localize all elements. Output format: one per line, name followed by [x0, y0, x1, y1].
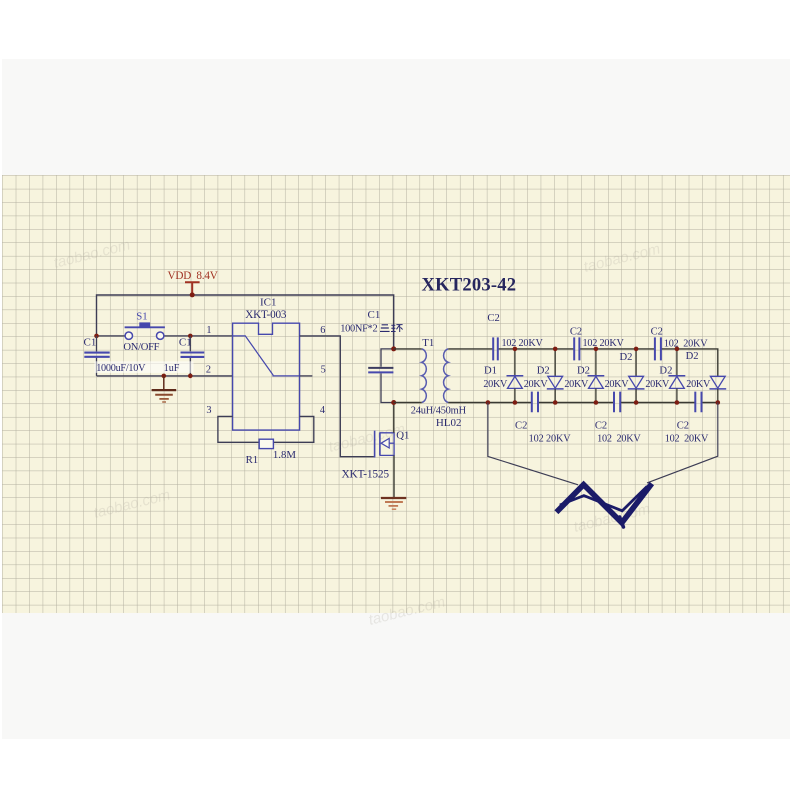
output arrow zigzag — [556, 484, 651, 523]
svg-text:Q1: Q1 — [396, 430, 409, 442]
svg-text:ON/OFF: ON/OFF — [123, 342, 159, 353]
wire pin5 stub — [300, 375, 313, 377]
transformer T1 primary winding — [422, 349, 427, 403]
svg-text:HL02: HL02 — [436, 417, 462, 429]
capacitor C2 bottom #3 — [695, 392, 701, 413]
wire pin1 net right segment — [164, 335, 233, 337]
capacitor C1 1uF (leads and plates) — [189, 336, 191, 376]
svg-text:24uH/450mH: 24uH/450mH — [411, 406, 467, 417]
wire ground net bottom — [97, 375, 233, 377]
svg-text:R1: R1 — [246, 454, 259, 466]
svg-text:20KV: 20KV — [483, 379, 508, 390]
svg-text:C1: C1 — [84, 337, 97, 349]
svg-text:C1: C1 — [179, 337, 192, 349]
svg-text:D1: D1 — [484, 365, 497, 376]
node 1uF bottom junction — [188, 374, 193, 379]
svg-text:T1: T1 — [422, 337, 434, 349]
svg-text:1uF: 1uF — [164, 363, 180, 374]
svg-text:6: 6 — [320, 325, 325, 336]
wire Q1 source to ground — [393, 455, 395, 497]
capacitor C1 1000uF (leads and plates) — [96, 336, 98, 376]
svg-text:C1: C1 — [368, 309, 381, 321]
node HV bottom junction 7 — [716, 400, 721, 405]
resistor R1 — [259, 439, 273, 448]
node HV bottom junction 1 — [486, 400, 491, 405]
svg-text:XKT-1525: XKT-1525 — [342, 468, 390, 480]
svg-text:100NF*2: 100NF*2 — [340, 324, 377, 335]
svg-text:C2: C2 — [677, 420, 689, 431]
svg-text:S1: S1 — [136, 311, 147, 323]
svg-text:20KV: 20KV — [645, 379, 670, 390]
svg-text:102 20KV: 102 20KV — [583, 338, 625, 349]
svg-text:3: 3 — [206, 405, 211, 416]
svg-text:VDD 8.4V: VDD 8.4V — [168, 270, 218, 282]
node ground tap junction — [162, 374, 167, 379]
node HV top junction 2 — [553, 347, 558, 352]
node HV bottom junction 4 — [594, 400, 599, 405]
svg-text:D2: D2 — [659, 365, 672, 376]
capacitor C2 bottom #2 — [614, 392, 620, 413]
capacitor C1 100NF branch — [381, 349, 394, 403]
svg-text:5: 5 — [321, 364, 326, 375]
wire Q1 drain — [393, 403, 395, 433]
node VDD junction — [190, 292, 195, 297]
svg-text:20KV: 20KV — [564, 379, 589, 390]
node HV bottom junction 3 — [553, 400, 558, 405]
svg-text:2: 2 — [206, 365, 211, 376]
wire HV output left lead — [488, 403, 578, 485]
svg-text:C2: C2 — [515, 420, 527, 431]
wire T1 secondary top lead — [448, 348, 493, 350]
wire T1 primary bottom lead — [394, 402, 422, 404]
power symbol VDD bar — [185, 282, 200, 294]
svg-text:102 20KV: 102 20KV — [529, 433, 572, 444]
svg-text:102 20KV: 102 20KV — [664, 338, 708, 349]
diode D1 #1 — [514, 349, 516, 376]
label three-ring glyphs — [380, 325, 390, 332]
svg-text:1000uF/10V: 1000uF/10V — [96, 363, 146, 374]
wire HV output right lead — [647, 403, 718, 483]
node HV top junction 5 — [675, 347, 680, 352]
diode D2 #5 — [676, 349, 678, 376]
svg-text:D2: D2 — [537, 366, 550, 377]
svg-text:C2: C2 — [651, 326, 663, 337]
svg-text:C2: C2 — [595, 420, 607, 431]
switch S1 — [125, 326, 165, 328]
transistor Q1 MOSFET XKT-1525 — [374, 431, 376, 458]
node T1 primary bottom junction — [391, 400, 396, 405]
svg-text:1.8M: 1.8M — [273, 449, 296, 461]
svg-text:C2: C2 — [487, 313, 499, 324]
node HV top junction 3 — [594, 347, 599, 352]
transformer T1 secondary winding — [444, 349, 449, 403]
svg-text:XKT203-42: XKT203-42 — [422, 275, 517, 296]
svg-text:D2: D2 — [686, 351, 699, 362]
node 1uF top junction — [188, 334, 193, 339]
wire pin1 net left segment — [97, 335, 126, 337]
svg-text:XKT-003: XKT-003 — [245, 309, 287, 321]
diode D2 #6 — [710, 376, 725, 388]
wire VDD power rail — [97, 295, 394, 349]
wire ground stem GND1 — [163, 376, 165, 390]
node HV top junction 4 — [634, 347, 639, 352]
diode D2 #4 — [635, 349, 637, 376]
diode D2 #3 — [595, 349, 597, 376]
svg-text:102 20KV: 102 20KV — [502, 338, 544, 349]
wire pin6 to Q1 gate — [300, 336, 374, 457]
node HV bottom junction 5 — [634, 400, 639, 405]
node C1 top junction — [94, 334, 99, 339]
diode D2 #2 — [554, 349, 556, 376]
wire pin3-R1-pin4 loop — [218, 416, 314, 442]
svg-text:1: 1 — [206, 325, 211, 336]
node HV bottom junction 6 — [675, 400, 680, 405]
wire HV bottom rail — [448, 402, 718, 404]
wire HV top rail — [498, 349, 718, 376]
svg-text:20KV: 20KV — [686, 379, 711, 390]
capacitor C2 top #1 — [493, 337, 498, 360]
svg-text:C2: C2 — [570, 326, 582, 337]
ground GND2 — [381, 497, 406, 499]
node HV top junction 1 — [513, 347, 518, 352]
svg-text:D2: D2 — [620, 352, 633, 363]
label backdrop for values — [95, 361, 194, 373]
op-amp IC1 body XKT-003 — [233, 323, 300, 430]
node T1 primary top junction — [391, 346, 396, 351]
wire T1 primary top lead — [394, 348, 422, 350]
node HV bottom junction 2 — [513, 400, 518, 405]
svg-text:102 20KV: 102 20KV — [665, 433, 709, 444]
svg-text:102 20KV: 102 20KV — [597, 433, 641, 444]
capacitor C2 bottom #1 — [532, 392, 538, 413]
svg-text:IC1: IC1 — [260, 296, 277, 308]
svg-text:20KV: 20KV — [605, 379, 630, 390]
ground GND1 — [152, 389, 177, 391]
svg-text:20KV: 20KV — [524, 379, 549, 390]
svg-text:4: 4 — [320, 405, 325, 416]
capacitor C2 top #2 — [574, 337, 579, 360]
capacitor C2 top #3 — [655, 337, 661, 360]
svg-text:D2: D2 — [577, 366, 590, 377]
